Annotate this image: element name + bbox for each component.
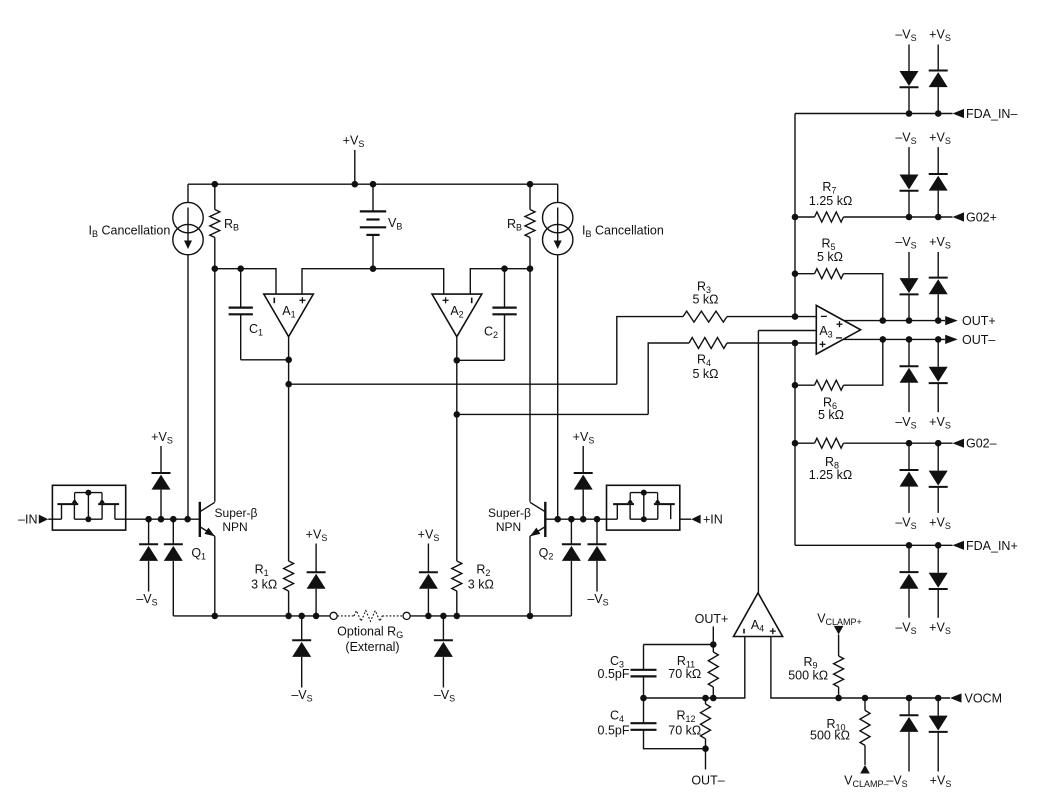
node: base rail junctions (left) bbox=[145, 516, 191, 523]
node: A3 inverting input junction bbox=[792, 313, 799, 320]
pin FDA_IN+ with arrow bbox=[953, 539, 1018, 553]
node: Vb top junction bbox=[370, 181, 377, 188]
wire: A4 inverting input to R11/R12 tap bbox=[644, 637, 745, 699]
wire: emitter degeneration rail (left part) bbox=[173, 615, 329, 617]
battery VB bbox=[360, 184, 403, 269]
svg-text:–VS: –VS bbox=[895, 28, 916, 44]
svg-text:R4: R4 bbox=[697, 353, 711, 369]
resistor R12 70k bbox=[668, 698, 710, 749]
node: R11 bottom junction bbox=[710, 695, 717, 702]
node: R8 left junction bbox=[792, 440, 799, 447]
svg-text:5 kΩ: 5 kΩ bbox=[692, 293, 718, 307]
wire: A4 non-inverting input to VOCM rail bbox=[771, 637, 950, 699]
wire: A2 output to R4 branch bbox=[457, 413, 648, 415]
label: Super-beta NPN (left) bbox=[215, 506, 258, 534]
pin OUT- with arrow bbox=[945, 333, 995, 347]
pin FDA_IN- with arrow bbox=[953, 107, 1018, 121]
node: A3 non-inverting input junction bbox=[792, 340, 799, 347]
op-amp A2 bbox=[432, 294, 482, 337]
svg-text:OUT–: OUT– bbox=[691, 774, 724, 788]
svg-text:+VS: +VS bbox=[573, 430, 595, 446]
label: Super-beta NPN (right) bbox=[488, 506, 531, 534]
wire: Rb-left bottom to Q1 collector bbox=[214, 238, 216, 502]
clamp diode to +Vs (R1 node) bbox=[306, 528, 328, 616]
wire: OUT+ rail bbox=[844, 320, 945, 322]
svg-text:RB: RB bbox=[507, 217, 522, 233]
node: OUT+ junctions bbox=[880, 317, 942, 324]
node: VB bottom junction bbox=[370, 265, 377, 272]
node: G02+ diode junctions bbox=[906, 214, 942, 221]
capacitor C4 0.5pF bbox=[598, 698, 706, 749]
resistor R9 500k bbox=[788, 655, 843, 698]
svg-text:+IN: +IN bbox=[703, 513, 723, 527]
svg-text:R2: R2 bbox=[476, 563, 490, 579]
node: bottom rail junctions (left) bbox=[212, 613, 320, 620]
label/stub OUT- sense bbox=[691, 749, 724, 788]
clamp diode pair to -Vs/+Vs (below G02-) bbox=[895, 443, 950, 531]
node: A2 output / R4 branch junction bbox=[454, 411, 461, 418]
svg-text:C4: C4 bbox=[610, 708, 624, 724]
wire: A3 input node vertical (lower, R6 / R8 / FDA_IN+) bbox=[794, 343, 796, 545]
node: base rail junctions (right) bbox=[554, 516, 600, 523]
current source IB cancellation (left) bbox=[89, 184, 204, 519]
wire: Q1 emitter to bottom rail bbox=[214, 536, 216, 616]
node: R7 left junction bbox=[792, 214, 799, 221]
clamp diode to -Vs (left input, inner) bbox=[164, 519, 183, 616]
wire: left input base rail bbox=[115, 518, 200, 520]
node: Rb-left / A1(-) rail junction bbox=[212, 265, 219, 272]
node: Rb-right / A2(-) rail junction bbox=[527, 265, 534, 272]
input clamp box (left) bbox=[52, 485, 125, 530]
terminal: RG left open circle bbox=[330, 612, 337, 619]
wire: A3 input node vertical (upper, FDA_IN- / R7 / R5) bbox=[794, 114, 796, 317]
resistor R10 500k bbox=[810, 698, 870, 765]
source VCLAMP- with arrow bbox=[844, 765, 888, 789]
svg-text:70 kΩ: 70 kΩ bbox=[668, 667, 701, 681]
node: A1 output / C1 junction bbox=[285, 357, 292, 364]
wire: FDA_IN- rail bbox=[795, 113, 953, 115]
resistor R1 3k bbox=[251, 561, 293, 616]
wire: OUT- rail bbox=[843, 338, 945, 340]
source VCLAMP+ with arrow bbox=[817, 612, 862, 657]
svg-text:C2: C2 bbox=[484, 325, 498, 341]
svg-text:–VS: –VS bbox=[895, 130, 916, 146]
svg-text:+VS: +VS bbox=[418, 528, 440, 544]
node: G02- diode junctions bbox=[906, 440, 942, 447]
svg-text:R12: R12 bbox=[676, 708, 695, 724]
svg-text:+VS: +VS bbox=[929, 516, 951, 532]
transistor Q2 (super-beta NPN) bbox=[530, 502, 553, 562]
resistor R8 1.25k bbox=[795, 438, 953, 482]
svg-text:0.5pF: 0.5pF bbox=[598, 667, 630, 681]
wire: C2 bottom to A2 output node bbox=[457, 359, 505, 361]
clamp diode to +Vs (left input) bbox=[151, 430, 173, 519]
svg-text:VCLAMP+: VCLAMP+ bbox=[817, 612, 862, 628]
svg-text:NPN: NPN bbox=[496, 520, 521, 534]
resistor R7 1.25k bbox=[795, 180, 953, 222]
resistor R11 70k bbox=[668, 645, 718, 699]
svg-text:Q1: Q1 bbox=[191, 546, 206, 562]
node: bottom rail junctions (right) bbox=[425, 613, 533, 620]
svg-text:3 kΩ: 3 kΩ bbox=[251, 578, 277, 592]
wire: A1 output chain down to R1 bbox=[288, 337, 290, 561]
svg-text:1.25 kΩ: 1.25 kΩ bbox=[809, 468, 852, 482]
node: Rb-right top junction bbox=[527, 181, 534, 188]
transistor Q1 (super-beta NPN) bbox=[191, 502, 214, 562]
svg-text:VCLAMP–: VCLAMP– bbox=[844, 774, 888, 790]
clamp diode to -Vs (R2 node) bbox=[434, 616, 455, 704]
wire: A4 output to A3 middle input bbox=[757, 331, 759, 593]
clamp diode to -Vs (left input, outer) bbox=[136, 519, 158, 607]
svg-text:G02–: G02– bbox=[966, 437, 997, 451]
wire: VB bottom rail to A1(+) and A2(+) bbox=[302, 269, 444, 294]
svg-text:+VS: +VS bbox=[929, 130, 951, 146]
svg-text:+VS: +VS bbox=[929, 28, 951, 44]
svg-text:–VS: –VS bbox=[291, 688, 312, 704]
label/stub +Vs supply at top center bbox=[343, 134, 365, 185]
svg-text:IB Cancellation: IB Cancellation bbox=[89, 224, 171, 240]
svg-text:–VS: –VS bbox=[587, 592, 608, 608]
capacitor C3 0.5pF bbox=[598, 645, 657, 699]
resistor RB (left) bbox=[210, 184, 239, 237]
svg-text:FDA_IN+: FDA_IN+ bbox=[966, 539, 1018, 553]
svg-text:NPN: NPN bbox=[222, 520, 247, 534]
clamp diode pair to -Vs/+Vs (below FDA_IN+) bbox=[895, 545, 950, 636]
wire: Rb-right bottom to Q2 collector bbox=[529, 238, 531, 502]
svg-text:Super-β: Super-β bbox=[488, 506, 531, 520]
node: FDA_IN- diode junctions bbox=[906, 110, 942, 117]
svg-text:RB: RB bbox=[224, 217, 239, 233]
node: OUT+ sense junction bbox=[710, 641, 717, 648]
op-amp A4 (Vocm buffer) bbox=[734, 593, 783, 637]
pin G02- with arrow bbox=[953, 437, 997, 451]
svg-text:FDA_IN–: FDA_IN– bbox=[966, 107, 1017, 121]
clamp diode pair to -Vs/+Vs (above OUT+) bbox=[895, 235, 950, 320]
svg-text:+VS: +VS bbox=[306, 528, 328, 544]
svg-text:–VS: –VS bbox=[895, 415, 916, 431]
label/stub OUT+ sense bbox=[695, 612, 729, 645]
svg-text:+VS: +VS bbox=[343, 134, 365, 150]
resistor RG (optional external, dashed) bbox=[337, 611, 403, 654]
resistor RB (right) bbox=[507, 184, 535, 237]
clamp JFET pair (right box internals) bbox=[613, 490, 675, 523]
node: C2 top junction bbox=[501, 265, 508, 272]
svg-text:Optional RG: Optional RG bbox=[337, 624, 403, 640]
op-amp A3 (fully differential) bbox=[816, 305, 860, 354]
node: OUT- sense junction bbox=[702, 745, 709, 752]
svg-text:5 kΩ: 5 kΩ bbox=[692, 367, 718, 381]
wire: emitter degeneration rail (right part) bbox=[410, 615, 571, 617]
svg-text:Q2: Q2 bbox=[539, 546, 554, 562]
svg-text:IB Cancellation: IB Cancellation bbox=[582, 224, 664, 240]
svg-text:G02+: G02+ bbox=[966, 211, 997, 225]
clamp diode pair to -Vs/+Vs (below VOCM) bbox=[886, 698, 951, 789]
svg-text:0.5pF: 0.5pF bbox=[598, 724, 630, 738]
clamp JFET pair (left box internals) bbox=[57, 490, 119, 523]
svg-text:A3: A3 bbox=[819, 324, 832, 340]
current source IB cancellation (right) bbox=[543, 184, 664, 519]
pin +IN with arrow bbox=[680, 513, 723, 527]
svg-text:VOCM: VOCM bbox=[965, 692, 1003, 706]
capacitor C1 bbox=[229, 269, 263, 360]
svg-text:5 kΩ: 5 kΩ bbox=[818, 408, 844, 422]
svg-text:–VS: –VS bbox=[434, 688, 455, 704]
svg-text:5 kΩ: 5 kΩ bbox=[817, 250, 843, 264]
wire: C1 bottom to A1 output node bbox=[241, 359, 289, 361]
wire: FDA_IN+ rail bbox=[795, 544, 953, 546]
svg-text:+VS: +VS bbox=[929, 415, 951, 431]
svg-text:C1: C1 bbox=[249, 322, 263, 338]
capacitor C2 bbox=[484, 269, 517, 361]
svg-text:–VS: –VS bbox=[895, 621, 916, 637]
pin VOCM with arrow bbox=[950, 692, 1002, 706]
svg-text:A4: A4 bbox=[751, 618, 764, 634]
clamp diode pair to -Vs/+Vs (above G02+) bbox=[895, 130, 950, 217]
svg-text:1.25 kΩ: 1.25 kΩ bbox=[809, 194, 852, 208]
clamp diode to -Vs (right input, inner) bbox=[562, 519, 581, 616]
svg-text:OUT+: OUT+ bbox=[695, 612, 729, 626]
clamp diode to -Vs (R1 node) bbox=[291, 616, 312, 704]
node: FDA_IN+ diode junctions bbox=[906, 542, 942, 549]
svg-text:OUT+: OUT+ bbox=[962, 314, 996, 328]
resistor R3 5k with branch wire bbox=[617, 280, 817, 385]
svg-text:+VS: +VS bbox=[930, 774, 952, 790]
node: A2 output / C2 junction bbox=[454, 357, 461, 364]
resistor R4 5k with branch wire bbox=[648, 338, 816, 415]
node: VOCM rail junctions bbox=[835, 695, 941, 702]
wire: A2 inverting input to Rb-right node bbox=[470, 269, 530, 294]
node: R5 left junction bbox=[792, 270, 799, 277]
node: A1 output / R3 branch junction bbox=[285, 381, 292, 388]
svg-text:(External): (External) bbox=[345, 640, 399, 654]
svg-text:OUT–: OUT– bbox=[962, 333, 995, 347]
clamp diode to -Vs (right input, outer) bbox=[587, 519, 608, 607]
svg-text:–VS: –VS bbox=[895, 235, 916, 251]
svg-text:–IN: –IN bbox=[18, 513, 37, 527]
terminal: RG right open circle bbox=[403, 612, 410, 619]
wire: Rb-left node to A1 inverting input bbox=[215, 269, 276, 294]
node: C3/C4 junction bbox=[640, 695, 647, 702]
resistor R6 5k (feedback to OUT-) bbox=[795, 339, 883, 422]
node: OUT- junctions bbox=[880, 336, 942, 343]
node: R6 left junction bbox=[792, 382, 799, 389]
svg-text:+VS: +VS bbox=[929, 621, 951, 637]
resistor R2 3k bbox=[452, 561, 494, 616]
wire: OUT+ sense to C3 bbox=[644, 644, 714, 646]
node: C1 top junction bbox=[237, 265, 244, 272]
svg-text:+VS: +VS bbox=[929, 235, 951, 251]
svg-text:70 kΩ: 70 kΩ bbox=[668, 724, 701, 738]
svg-text:A2: A2 bbox=[450, 304, 463, 320]
wire: +Vs top supply rail bbox=[188, 183, 558, 185]
svg-text:–VS: –VS bbox=[886, 774, 907, 790]
pin OUT+ with arrow bbox=[945, 314, 995, 328]
wire: A3 VOCM middle input bbox=[758, 330, 816, 332]
svg-text:+VS: +VS bbox=[151, 430, 173, 446]
input clamp box (right) bbox=[607, 485, 680, 530]
resistor R5 5k (feedback to OUT+) bbox=[795, 237, 883, 321]
svg-text:–VS: –VS bbox=[136, 592, 157, 608]
node: R12 top junction bbox=[702, 695, 709, 702]
wire: right input base rail bbox=[545, 518, 617, 520]
node: +Vs stub junction bbox=[352, 181, 359, 188]
svg-text:Super-β: Super-β bbox=[215, 506, 258, 520]
svg-text:VB: VB bbox=[388, 216, 402, 232]
wire: A2 output chain down to R2 bbox=[456, 337, 458, 561]
wire: A1 output to R3 branch bbox=[289, 383, 617, 385]
pin -IN with arrow bbox=[18, 513, 61, 527]
clamp diode pair to -Vs/+Vs (above FDA_IN-) bbox=[895, 28, 950, 114]
svg-text:500 kΩ: 500 kΩ bbox=[810, 728, 850, 742]
wire: Q2 emitter to bottom rail bbox=[529, 536, 531, 616]
svg-text:–VS: –VS bbox=[895, 516, 916, 532]
svg-text:3 kΩ: 3 kΩ bbox=[468, 578, 494, 592]
clamp diode to +Vs (R2 node) bbox=[418, 528, 440, 616]
svg-text:R1: R1 bbox=[255, 563, 269, 579]
clamp diode pair to -Vs/+Vs (below OUT-) bbox=[895, 339, 950, 430]
op-amp A1 bbox=[264, 294, 314, 337]
svg-text:A1: A1 bbox=[282, 304, 295, 320]
pin G02+ with arrow bbox=[953, 211, 997, 225]
node: Rb-left top junction bbox=[212, 181, 219, 188]
svg-text:500 kΩ: 500 kΩ bbox=[788, 669, 828, 683]
clamp diode to +Vs (right input) bbox=[573, 430, 595, 519]
